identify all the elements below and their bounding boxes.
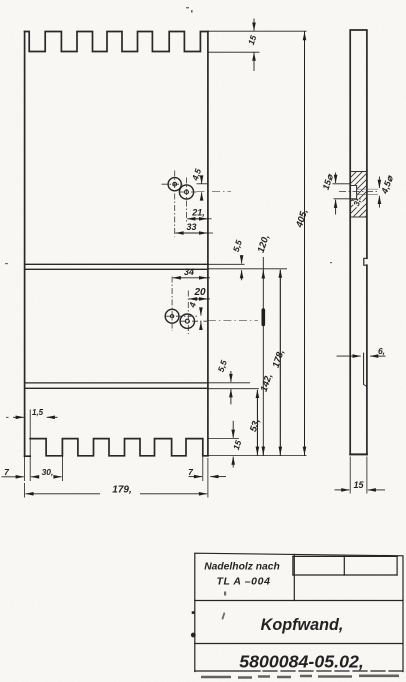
dimension 4,5 (hole offset) xyxy=(197,177,208,200)
centerline through side view xyxy=(339,190,379,192)
dimension 6 groove xyxy=(337,353,386,387)
scan smudges bottom xyxy=(201,676,399,678)
dimension 120 and 142 shared line xyxy=(262,257,264,456)
dimension 30 xyxy=(30,456,62,481)
dimension 1,5 left xyxy=(6,409,58,456)
dimension 4 (hole offset lower) xyxy=(200,309,202,327)
dimension 15 thickness xyxy=(335,457,386,494)
scan noise overlay xyxy=(0,0,1,1)
hatched hole section xyxy=(338,160,398,220)
dimension 178 xyxy=(279,270,281,456)
hole H1 xyxy=(168,178,181,191)
front view left edge xyxy=(24,32,26,457)
groove line lower pair xyxy=(25,383,208,388)
side view outline xyxy=(350,30,367,454)
dimension 34 xyxy=(173,277,210,279)
dimension 179 xyxy=(25,458,208,498)
dimension 5,5 upper groove xyxy=(241,255,243,280)
dimension diameter 6 / 4,5 hole xyxy=(378,177,380,208)
dimension 7 bottom right xyxy=(189,456,227,481)
dimension 20 xyxy=(189,298,210,300)
hole H3 xyxy=(165,309,179,323)
front view top castellated edge xyxy=(25,32,208,52)
dimension 21 xyxy=(187,218,211,220)
scan specks xyxy=(5,7,332,620)
counterbore notch xyxy=(350,186,356,199)
dimension 15 bottom tooth xyxy=(208,421,239,468)
hole lines in side view xyxy=(357,189,378,194)
right edge notch xyxy=(364,258,367,265)
dimension 33 xyxy=(175,232,213,234)
front view bottom castellated edge xyxy=(25,439,208,457)
dimension diameter 15 counterbore xyxy=(333,173,351,215)
dimension 5,5 lower groove xyxy=(230,371,232,404)
dimension 15 top tooth xyxy=(208,19,260,72)
dimension 53 xyxy=(256,390,258,456)
dimension 405 xyxy=(304,31,306,455)
centerlines of holes H3 H4 xyxy=(165,277,259,335)
material cell dividers xyxy=(293,556,397,575)
dimension 3 counterbore depth xyxy=(352,199,358,201)
title block frame xyxy=(195,553,403,671)
front view right edge xyxy=(207,32,209,456)
groove line upper pair xyxy=(25,264,208,269)
dimension 7 bottom left xyxy=(2,456,25,481)
extension lines right side xyxy=(208,31,307,455)
title block edge marks xyxy=(191,611,196,637)
hole H2 xyxy=(179,185,193,199)
hole H4 xyxy=(180,314,194,328)
centerlines of holes H1 H2 xyxy=(162,171,232,237)
